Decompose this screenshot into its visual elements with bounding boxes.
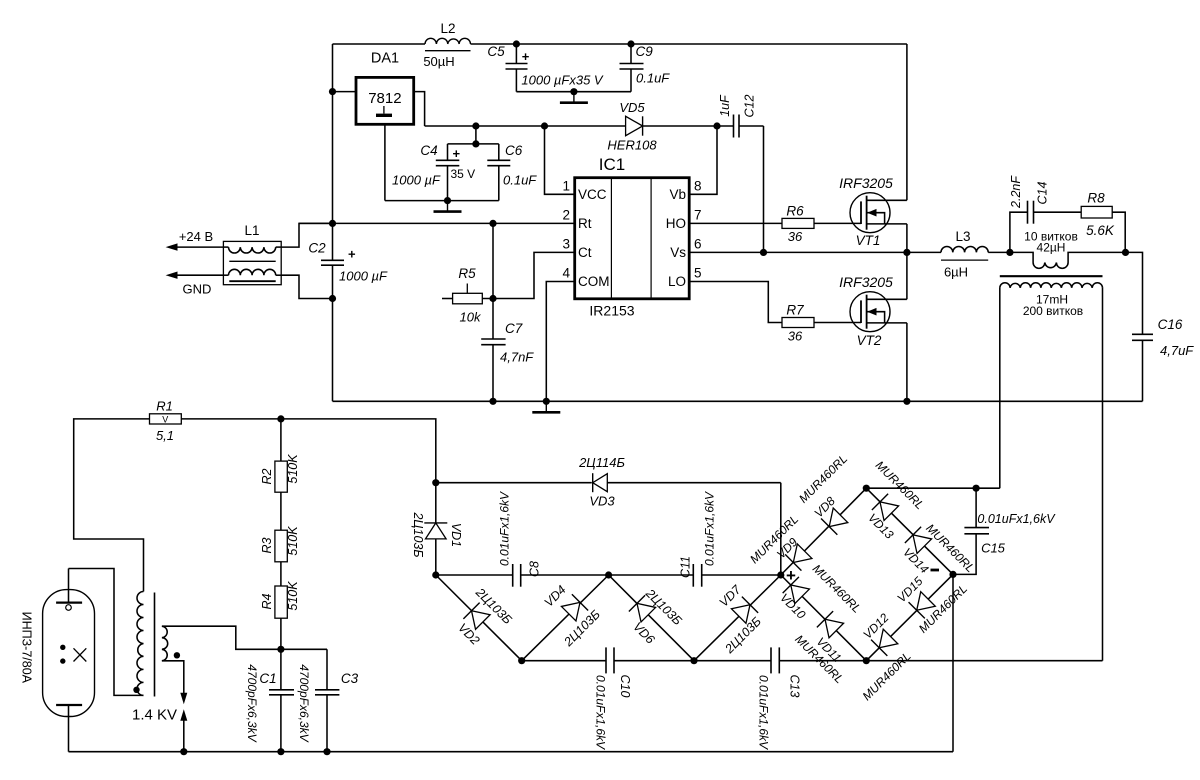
svg-text:4,7nF: 4,7nF: [500, 350, 534, 365]
svg-text:L3: L3: [955, 229, 970, 244]
svg-text:+: +: [522, 49, 530, 64]
diode VD10 MUR460RL: [777, 562, 864, 622]
svg-text:1000 µFx35 V: 1000 µFx35 V: [521, 73, 604, 88]
node C9 top junction: [627, 40, 634, 47]
diode VD1 2Ts103B: [411, 483, 463, 575]
diode VD13 MUR460RL: [865, 458, 927, 542]
svg-text:510K: 510K: [286, 454, 300, 484]
junction C1 node: [277, 646, 284, 653]
wire DA1 output to 12V line: [414, 92, 425, 126]
capacitor C15 0.01uFx1.6kV: [953, 488, 1056, 574]
polarity dot T2 secondary: [174, 652, 180, 658]
wire R1 net: [74, 419, 150, 592]
junction VD2 bottom: [518, 657, 525, 664]
wire DA1 input: [333, 91, 357, 93]
capacitor C3 4700pFx6.3kV: [297, 649, 359, 751]
svg-text:Vs: Vs: [670, 245, 686, 260]
svg-text:R1: R1: [156, 399, 173, 414]
wire ladder middle rail: [436, 574, 781, 576]
junction VD1 bottom: [432, 571, 439, 578]
inductor L3 6uH: [941, 229, 1010, 280]
resistor R2 510K: [260, 419, 300, 492]
wire bridge left-top side: [781, 488, 867, 575]
svg-text:DA1: DA1: [371, 51, 399, 67]
svg-text:R8: R8: [1087, 191, 1105, 206]
wire bridge top vertex to secondary: [866, 487, 1000, 489]
wire L1 top to Rt rail: [281, 223, 332, 247]
svg-text:C9: C9: [636, 44, 654, 59]
wire T2 secondary bottom spark lead: [162, 661, 184, 693]
svg-text:C11: C11: [678, 556, 692, 578]
wire C5-C9 ground bar: [516, 91, 631, 93]
wire DA1 ground lead: [384, 124, 386, 200]
svg-text:+: +: [453, 146, 461, 161]
svg-text:4700pFx6,3kV: 4700pFx6,3kV: [245, 664, 259, 742]
svg-text:LO: LO: [668, 274, 686, 289]
wire T1 to C16: [1126, 252, 1143, 334]
wire minus node drop: [952, 574, 954, 751]
diode VD6 2Ts103B: [629, 586, 685, 647]
junction C1 rail: [277, 748, 284, 755]
svg-text:IRF3205: IRF3205: [839, 274, 893, 290]
svg-text:Ct: Ct: [578, 245, 592, 260]
wire VCC pin1: [545, 126, 575, 194]
diode VD5 HER108: [607, 100, 657, 153]
diode VD8 MUR460RL: [796, 452, 850, 535]
node +24V input arrow: [166, 229, 224, 251]
svg-text:R5: R5: [458, 266, 476, 281]
svg-text:VD1: VD1: [449, 523, 463, 547]
svg-text:GND: GND: [183, 282, 212, 297]
diode VD11 MUR460RL: [792, 611, 846, 686]
wire left +24V vertical rail: [332, 44, 334, 401]
capacitor C9 0.1uF: [620, 44, 671, 92]
transformer T1 secondary 17mH 200 vitkov: [1000, 276, 1103, 318]
node C5 top junction: [513, 40, 520, 47]
wire Vs net pin6: [689, 251, 941, 253]
wire L1 bottom to rail: [281, 275, 332, 298]
junction DA1 input: [329, 88, 336, 95]
junction VT1 source / VT2 drain: [903, 249, 910, 256]
wire ladder bottom rail: [522, 660, 1103, 662]
svg-text:6: 6: [694, 237, 702, 252]
svg-text:0.1uF: 0.1uF: [636, 71, 670, 86]
resistor R4 510K: [260, 562, 300, 618]
svg-text:C4: C4: [420, 143, 437, 158]
svg-text:C12: C12: [743, 94, 757, 117]
svg-text:8: 8: [694, 179, 702, 194]
svg-text:C2: C2: [308, 241, 326, 256]
wire top-section ground rail: [333, 400, 1143, 402]
junction L1 bottom: [329, 295, 336, 302]
transformer T2 core: [154, 593, 156, 697]
junction C3 rail: [323, 748, 330, 755]
wire VT2 source riser: [906, 323, 908, 401]
wire C4/C6 top bar: [448, 126, 499, 144]
svg-text:IRF3205: IRF3205: [839, 175, 893, 191]
junction top bar: [472, 140, 479, 147]
svg-text:R2: R2: [260, 468, 274, 484]
capacitor C7 4.7nF: [481, 299, 534, 402]
wire Vb pin8: [689, 126, 717, 194]
svg-text:C10: C10: [618, 675, 632, 698]
resistor R3 510K: [260, 492, 300, 562]
svg-text:L2: L2: [440, 21, 455, 36]
wire bottom return rail: [69, 751, 954, 753]
wire ladder top rail: [436, 483, 781, 575]
wire VT1 drain riser: [906, 44, 908, 200]
svg-text:2Ц103Б: 2Ц103Б: [411, 511, 425, 557]
wire Rt to R5 riser: [492, 223, 494, 298]
junction bridge minus vertex: [949, 571, 956, 578]
junction bridge plus vertex: [777, 571, 784, 578]
capacitor C8 0.01uFx1.6kV: [497, 491, 541, 587]
svg-text:0.1uF: 0.1uF: [503, 173, 537, 188]
junction VD5-C12 node: [713, 122, 720, 129]
svg-text:+24 B: +24 B: [179, 229, 213, 244]
node 1.4KV gap arrows: [132, 693, 187, 752]
wire R4 to C1 node: [280, 618, 282, 649]
junction L3-T1 left: [1006, 249, 1013, 256]
svg-text:36: 36: [788, 329, 803, 344]
svg-text:1000 µF: 1000 µF: [339, 269, 388, 284]
wire VD7 diagonal: [694, 575, 781, 661]
svg-text:COM: COM: [578, 274, 610, 289]
svg-text:C7: C7: [505, 321, 523, 336]
svg-text:VT1: VT1: [856, 233, 881, 248]
junction T1 right: [1122, 249, 1129, 256]
wire HO pin7 to R6: [689, 222, 782, 224]
svg-text:2.2nF: 2.2nF: [1009, 175, 1023, 209]
junction spark gap rail: [180, 748, 187, 755]
svg-text:5.6K: 5.6K: [1086, 223, 1115, 238]
svg-text:C13: C13: [788, 675, 802, 698]
transistor VT2 IRF3205: [850, 292, 907, 332]
wire C4/C6 bottom bar: [385, 200, 499, 202]
wire bridge bottom-right side: [866, 574, 953, 660]
junction VD1 top: [432, 479, 439, 486]
svg-text:10k: 10k: [460, 310, 482, 325]
svg-text:C15: C15: [981, 541, 1006, 556]
wire bridge left-bottom side: [781, 575, 867, 661]
capacitor C14 2.2nF: [1009, 175, 1081, 253]
svg-text:C3: C3: [341, 671, 359, 686]
capacitor C5 1000uFx35V: [487, 44, 604, 92]
svg-text:IC1: IC1: [599, 155, 625, 174]
wire bridge top-right side: [866, 488, 953, 574]
svg-text:5: 5: [694, 266, 702, 281]
svg-text:0.01uFx1,6kV: 0.01uFx1,6kV: [702, 491, 716, 566]
svg-text:R3: R3: [260, 537, 274, 553]
svg-text:510K: 510K: [286, 526, 300, 556]
svg-text:0.01uFx1,6kV: 0.01uFx1,6kV: [497, 491, 511, 566]
wire LO pin5 to R7: [689, 282, 782, 323]
svg-text:Vb: Vb: [669, 187, 686, 202]
svg-text:C5: C5: [487, 44, 505, 59]
junction bridge bottom vertex: [863, 657, 870, 664]
capacitor C6 0.1uF: [487, 143, 537, 201]
op-amp IC1 IR2153: [575, 155, 690, 319]
capacitor C1 4700pFx6.3kV: [245, 649, 294, 751]
regulator DA1 7812: [356, 51, 414, 125]
resistor R8 5.6K: [1081, 191, 1125, 253]
inductor L2: [423, 21, 470, 69]
ground symbol (COM): [532, 401, 560, 412]
svg-text:2Ц114Б: 2Ц114Б: [578, 455, 625, 470]
polarity dot T2 primary: [133, 687, 139, 693]
capacitor C12 1uF: [718, 94, 757, 138]
wire VD6 diagonal: [609, 575, 694, 661]
svg-text:R6: R6: [786, 204, 804, 219]
wire T1 secondary right side: [1102, 288, 1104, 661]
diode VD2 2Ts103B: [455, 585, 514, 648]
junction R5-C7-Rt: [489, 295, 496, 302]
transistor VT1 IRF3205: [850, 193, 907, 233]
svg-text:L1: L1: [244, 223, 259, 238]
wire VT2 drain riser: [906, 252, 908, 299]
svg-text:5,1: 5,1: [156, 428, 174, 443]
wire R6 to VT1 gate: [814, 222, 861, 224]
wire VT1 source riser: [906, 224, 908, 253]
svg-text:VD3: VD3: [589, 494, 615, 509]
capacitor C13 0.01uFx1.6kV: [757, 647, 802, 750]
svg-text:V: V: [162, 415, 168, 425]
resistor R7 36: [782, 303, 814, 344]
svg-text:Rt: Rt: [578, 216, 592, 231]
svg-text:4,7uF: 4,7uF: [1160, 343, 1194, 358]
svg-text:C16: C16: [1158, 317, 1183, 332]
svg-text:510K: 510K: [286, 581, 300, 611]
wire COM pin4 to ground rail: [546, 282, 574, 402]
capacitor C16 4.7uF: [1132, 317, 1194, 401]
svg-text:C1: C1: [259, 671, 276, 686]
diode VD12 MUR460RL: [860, 610, 914, 703]
svg-text:C14: C14: [1036, 181, 1050, 204]
inductor L1 common-mode choke: [223, 223, 281, 285]
wire T2 secondary top to C1 node: [162, 626, 327, 649]
junction Rt rail: [329, 220, 336, 227]
svg-text:VD5: VD5: [619, 100, 645, 115]
junction R2 top: [277, 415, 284, 422]
capacitor C10 0.01uFx1.6kV: [594, 647, 633, 750]
junction bottom bar: [444, 197, 451, 204]
transformer T2 trigger primary: [137, 592, 144, 696]
svg-text:0.01uFx1,6kV: 0.01uFx1,6kV: [594, 675, 608, 750]
ground symbol (C4/C6): [434, 201, 462, 212]
junction C4/C6 tap: [472, 122, 479, 129]
svg-text:36: 36: [788, 229, 803, 244]
junction C12-Vs: [760, 249, 767, 256]
svg-text:1uF: 1uF: [718, 94, 732, 117]
svg-text:4: 4: [562, 266, 570, 281]
diode VD9 MUR460RL: [747, 512, 813, 571]
svg-text:VCC: VCC: [578, 187, 607, 202]
svg-text:42µH: 42µH: [1037, 241, 1066, 255]
svg-text:6µH: 6µH: [944, 265, 968, 280]
junction C15 tap: [973, 485, 980, 492]
transformer T1 primary 10 vitkov 42uH: [1010, 230, 1126, 269]
resistor R5 10k: [442, 266, 482, 325]
junction VCC tap: [541, 122, 548, 129]
diode VD15 MUR460RL: [894, 574, 970, 636]
svg-text:HO: HO: [666, 216, 686, 231]
svg-text:4700pFx6,3kV: 4700pFx6,3kV: [297, 664, 311, 742]
svg-text:R7: R7: [786, 303, 804, 318]
lamp EL1 INP3-7/80A flashtube: [20, 569, 95, 752]
svg-text:1.4 KV: 1.4 KV: [132, 707, 177, 724]
junction ground bar: [570, 88, 577, 95]
wire +24V top rail: [333, 43, 907, 45]
capacitor C4 1000uF 35V: [392, 143, 475, 201]
svg-text:35 V: 35 V: [451, 167, 476, 181]
svg-text:ИНПЗ-7/80А: ИНПЗ-7/80А: [20, 612, 34, 684]
diode VD7 2Ts103B: [717, 582, 764, 657]
diode VD14 MUR460RL: [900, 521, 977, 576]
svg-text:0.01uFx1,6kV: 0.01uFx1,6kV: [977, 512, 1056, 526]
wire T1 secondary left side: [999, 288, 1001, 488]
ground symbol (C5/C9): [560, 92, 588, 103]
svg-text:50µH: 50µH: [423, 54, 454, 69]
junction VT2 source ground: [903, 398, 910, 405]
resistor R1 5,1: [150, 399, 182, 444]
svg-text:C8: C8: [527, 561, 541, 577]
diode VD4 2Ts103B: [542, 583, 603, 650]
junction bridge top vertex: [863, 485, 870, 492]
capacitor C11 0.01uFx1.6kV: [678, 491, 716, 587]
junction C7 ground: [489, 398, 496, 405]
svg-text:7812: 7812: [368, 90, 401, 107]
wire Rt net pin2: [299, 222, 575, 224]
wire R7 to VT2 gate: [814, 322, 861, 324]
svg-text:200 витков: 200 витков: [1023, 304, 1083, 318]
svg-text:VT2: VT2: [857, 333, 882, 348]
svg-text:R4: R4: [260, 593, 274, 609]
wire VD4 diagonal: [522, 575, 609, 661]
wire R1 to ladder: [181, 419, 435, 483]
diode VD3 2Ts114B: [578, 455, 625, 509]
junction VD4-VD6 top: [605, 571, 612, 578]
wire VD2 diagonal: [436, 575, 522, 661]
svg-text:0.01uFx1,6kV: 0.01uFx1,6kV: [757, 675, 771, 750]
svg-text:IR2153: IR2153: [589, 303, 634, 319]
node minus sign: [931, 569, 940, 572]
svg-text:HER108: HER108: [607, 138, 657, 153]
resistor R6 36: [782, 204, 814, 245]
junction Rt-R5 riser: [489, 220, 496, 227]
svg-text:7: 7: [694, 208, 702, 223]
capacitor C2 1000uF: [308, 241, 388, 284]
junction VD6-VD7 bottom: [690, 657, 697, 664]
node GND input arrow: [166, 272, 224, 297]
transformer T2 trigger secondary: [162, 626, 168, 661]
svg-text:1: 1: [562, 179, 570, 194]
wire lamp anode to trigger coil: [69, 569, 144, 696]
junction COM ground: [543, 398, 550, 405]
wire Ct net pin3: [482, 252, 574, 298]
svg-text:C6: C6: [505, 143, 523, 158]
svg-text:3: 3: [562, 237, 570, 252]
svg-text:1000 µF: 1000 µF: [392, 173, 441, 188]
wire 12V line: [425, 126, 764, 252]
svg-text:+: +: [348, 247, 356, 262]
svg-text:2: 2: [562, 208, 570, 223]
